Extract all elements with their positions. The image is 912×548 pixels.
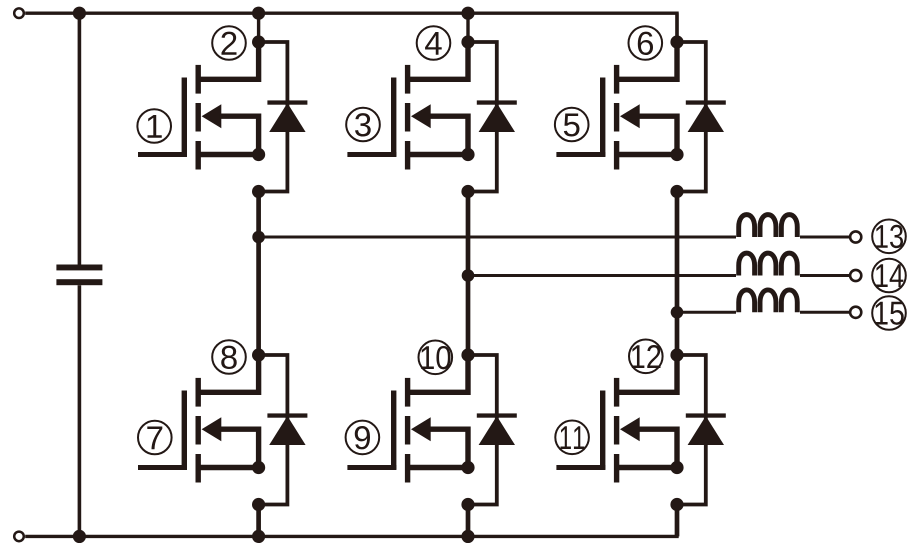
transistor Q1 channel source bar (196, 141, 201, 170)
terminal: DC+ input (top-left open circle) (14, 8, 24, 18)
transistor Q11 source lead wire (617, 465, 677, 470)
transistor Q3 gate plate (391, 78, 396, 157)
transistor Q5 channel source bar (614, 141, 619, 170)
body diode D1 branch wire (259, 42, 288, 192)
body diode D7 branch wire (259, 355, 288, 505)
transistor Q11 gate plate (600, 391, 605, 470)
transistor Q11 body arrow (620, 417, 640, 441)
transistor Q7 gate plate (182, 391, 187, 470)
body diode D11 cathode bar (686, 413, 726, 417)
transistor Q3 source lead wire (408, 152, 468, 157)
transistor Q5 body arrow (620, 104, 640, 128)
node: leg 1 / top rail junction dot (252, 7, 265, 20)
terminal: DC- input (bottom-left open circle) (14, 532, 24, 542)
transistor Q1 drain label circle 2 (212, 26, 246, 60)
node: capacitor / bottom rail junction dot (73, 530, 86, 543)
wire: capacitor bottom lead (78, 285, 82, 536)
node label circle 13 (872, 220, 906, 254)
node: leg 2 / top rail junction dot (461, 7, 474, 20)
transistor Q3 gate lead wire (347, 152, 396, 157)
transistor Q7 channel source bar (196, 454, 201, 483)
node: capacitor / top rail junction dot (73, 7, 86, 20)
wire: phase 2 output line (468, 274, 736, 277)
body diode D9 cathode bar (477, 413, 517, 417)
transistor Q11 body-source wire (638, 429, 677, 467)
capacitor C1 bottom plate (56, 279, 102, 285)
body diode D5 branch wire (677, 42, 706, 192)
capacitor C1 top plate (56, 265, 102, 271)
wire: inductor L1 to output terminal (800, 236, 849, 239)
transistor Q11 gate lead wire (556, 465, 605, 470)
transistor Q11 channel source bar (614, 454, 619, 483)
wire: leg 2 midpoint vertical (466, 192, 471, 356)
transistor Q11 drain lead wire (617, 355, 677, 392)
transistor Q3 channel drain bar (405, 65, 410, 94)
transistor Q9 gate label circle 9 (346, 421, 380, 455)
transistor Q9 channel source bar (405, 454, 410, 483)
node: leg 2 / bottom rail junction dot (461, 530, 474, 543)
transistor Q3 source junction dot (461, 148, 474, 161)
transistor Q5 drain label circle 6 (629, 26, 663, 60)
wire: capacitor top lead (78, 13, 82, 264)
transistor Q7 drain lead wire (198, 355, 258, 392)
wire: leg 3 low-side source to bottom rail (675, 505, 680, 537)
inductor L2 coil (739, 253, 798, 275)
transistor Q1 gate label circle 1 (137, 109, 171, 143)
transistor Q9 drain label circle 10 (419, 341, 453, 375)
body diode D7 anode triangle (269, 416, 305, 445)
body diode D11 anode triangle (688, 416, 724, 445)
body diode D3 branch wire (468, 42, 497, 192)
transistor Q1 channel body bar (196, 103, 201, 132)
body diode D11 branch wire (677, 355, 706, 505)
wire: negative bottom rail (25, 505, 677, 537)
transistor Q1 gate lead wire (138, 152, 187, 157)
node label circle 14 (872, 259, 906, 293)
inductor L1 coil (739, 215, 798, 237)
wire: phase 3 output line (677, 311, 736, 314)
transistor Q9 drain node dot (461, 348, 474, 361)
transistor Q7 source node dot (252, 498, 265, 511)
transistor Q7 channel body bar (196, 416, 201, 445)
body diode D9 branch wire (468, 355, 497, 505)
transistor Q9 source lead wire (408, 465, 468, 470)
transistor Q7 body arrow (202, 417, 222, 441)
terminal: phase 3 output open circle (850, 307, 861, 318)
wire: leg 3 top rail to high-side drain (675, 13, 678, 42)
transistor Q7 channel drain bar (196, 378, 201, 407)
terminal: phase 2 output open circle (850, 270, 861, 281)
transistor Q5 channel drain bar (614, 65, 619, 94)
transistor Q9 channel drain bar (405, 378, 410, 407)
transistor Q3 channel body bar (405, 103, 410, 132)
wire: leg 1 top rail to high-side drain (257, 13, 260, 42)
transistor Q3 gate label circle 3 (346, 108, 380, 142)
transistor Q9 channel body bar (405, 416, 410, 445)
transistor Q7 gate label circle 7 (138, 421, 172, 455)
node: leg 1 / bottom rail junction dot (252, 530, 265, 543)
transistor Q5 source node dot (670, 185, 683, 198)
transistor Q7 source lead wire (198, 465, 258, 470)
transistor Q11 source junction dot (670, 461, 683, 474)
transistor Q5 gate plate (600, 78, 605, 157)
transistor Q3 body arrow (411, 104, 431, 128)
body diode D5 anode triangle (688, 103, 724, 132)
transistor Q1 source junction dot (252, 148, 265, 161)
wire: positive top rail (25, 13, 677, 42)
wire: leg 1 low-side source to bottom rail (256, 505, 261, 537)
transistor Q1 drain lead wire (198, 42, 258, 79)
transistor Q9 source junction dot (461, 461, 474, 474)
transistor Q3 source node dot (461, 185, 474, 198)
transistor Q7 body-source wire (220, 429, 259, 467)
body diode D3 cathode bar (477, 100, 517, 104)
transistor Q3 drain lead wire (408, 42, 468, 79)
inductor L3 coil (739, 290, 798, 312)
body diode D1 anode triangle (269, 103, 305, 132)
transistor Q11 source node dot (670, 498, 683, 511)
transistor Q7 gate lead wire (138, 465, 187, 470)
body diode D1 cathode bar (267, 100, 307, 104)
transistor Q5 source junction dot (670, 148, 683, 161)
transistor Q9 body-source wire (429, 429, 468, 467)
transistor Q5 drain node dot (670, 35, 683, 48)
transistor Q1 body-source wire (220, 116, 259, 154)
body diode D3 anode triangle (479, 103, 515, 132)
wire: inductor L2 to output terminal (800, 274, 849, 277)
wire: leg 2 low-side source to bottom rail (466, 505, 471, 537)
transistor Q11 drain label circle 12 (629, 340, 663, 374)
transistor Q11 gate label circle 11 (555, 421, 589, 455)
transistor Q9 source node dot (461, 498, 474, 511)
transistor Q1 source lead wire (198, 152, 258, 157)
wire: leg 1 midpoint vertical (256, 192, 261, 356)
transistor Q1 source node dot (252, 185, 265, 198)
wire: leg 3 midpoint vertical (675, 192, 680, 356)
transistor Q7 drain node dot (252, 348, 265, 361)
transistor Q9 body arrow (411, 417, 431, 441)
transistor Q11 channel body bar (614, 416, 619, 445)
node label circle 15 (872, 296, 906, 330)
node: phase 1 output junction dot (252, 231, 265, 244)
body diode D9 anode triangle (479, 416, 515, 445)
transistor Q11 channel drain bar (614, 378, 619, 407)
transistor Q5 drain lead wire (617, 42, 677, 79)
transistor Q3 channel source bar (405, 141, 410, 170)
transistor Q5 gate lead wire (556, 152, 605, 157)
transistor Q5 source lead wire (617, 152, 677, 157)
transistor Q3 drain node dot (461, 35, 474, 48)
transistor Q7 source junction dot (252, 461, 265, 474)
transistor Q1 gate plate (182, 78, 187, 157)
wire: phase 1 output line (259, 236, 736, 239)
transistor Q7 drain label circle 8 (212, 340, 246, 374)
transistor Q5 gate label circle 5 (555, 108, 589, 142)
terminal: phase 1 output open circle (850, 231, 861, 242)
transistor Q1 drain node dot (252, 35, 265, 48)
transistor Q11 drain node dot (670, 348, 683, 361)
transistor Q3 body-source wire (429, 116, 468, 154)
node: phase 2 output junction dot (462, 269, 475, 282)
transistor Q9 drain lead wire (408, 355, 468, 392)
transistor Q9 gate plate (391, 391, 396, 470)
transistor Q3 drain label circle 4 (417, 26, 451, 60)
body diode D5 cathode bar (686, 100, 726, 104)
transistor Q5 channel body bar (614, 103, 619, 132)
transistor Q5 body-source wire (638, 116, 677, 154)
transistor Q1 body arrow (202, 104, 222, 128)
node: phase 3 output junction dot (671, 306, 684, 319)
body diode D7 cathode bar (267, 413, 307, 417)
wire: inductor L3 to output terminal (800, 311, 849, 314)
transistor Q1 channel drain bar (196, 65, 201, 94)
transistor Q9 gate lead wire (347, 465, 396, 470)
wire: leg 2 top rail to high-side drain (466, 13, 469, 42)
